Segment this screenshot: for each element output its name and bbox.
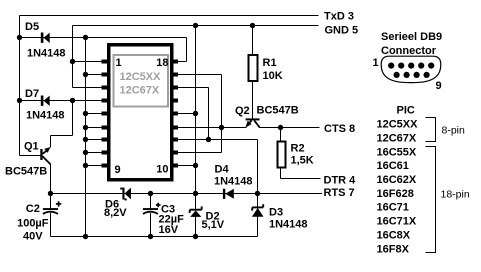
wire R1 top lead xyxy=(252,26,254,55)
DB9 pin dots row 2 xyxy=(394,72,430,78)
wire pin 18 stub lead xyxy=(175,61,187,63)
svg-text:8,2V: 8,2V xyxy=(104,207,127,219)
node GND rail junction xyxy=(193,23,198,28)
node pin6 junction xyxy=(83,125,88,130)
node rail85 bottom junction xyxy=(83,234,88,239)
svg-text:9: 9 xyxy=(115,164,121,176)
node C3 top junction xyxy=(148,191,153,196)
U1 pin stubs right xyxy=(173,60,178,168)
wire Q1 collector vertical xyxy=(50,136,52,148)
svg-text:1,5K: 1,5K xyxy=(291,155,314,167)
capacitor C2 xyxy=(43,201,61,214)
resistor R1 xyxy=(249,55,258,81)
wire corner down to pin 18 xyxy=(186,38,188,62)
wire DTR line xyxy=(281,178,321,180)
svg-text:1N4148: 1N4148 xyxy=(269,218,308,230)
node Q1 emitter junction xyxy=(48,191,53,196)
svg-text:1: 1 xyxy=(373,57,379,69)
svg-text:PIC: PIC xyxy=(397,104,415,116)
svg-text:C2: C2 xyxy=(26,203,40,215)
wire D5 row to pin 18 xyxy=(20,37,187,39)
zener diode D6 xyxy=(120,188,131,201)
svg-text:1N4148: 1N4148 xyxy=(27,47,66,59)
wire Q1 emitter vertical xyxy=(50,164,52,194)
transistor Q1 xyxy=(40,147,50,164)
node pin14 junction xyxy=(193,111,198,116)
wire pin 10 lead xyxy=(175,165,196,167)
wire pin 17 lead xyxy=(175,74,222,76)
node R1 top junction xyxy=(250,23,255,28)
wire D3 column xyxy=(257,194,259,237)
bracket 18-pin xyxy=(426,147,436,253)
node D7 pin4 junction xyxy=(70,98,75,103)
U1 inner gray box xyxy=(114,55,169,107)
svg-text:16F628: 16F628 xyxy=(377,188,414,200)
svg-text:16V: 16V xyxy=(159,224,179,236)
wire pin 9 lead xyxy=(86,165,109,167)
svg-text:12C67X: 12C67X xyxy=(120,85,160,97)
wire GND rail x195 xyxy=(195,26,197,210)
wire D7 row to pin 4 xyxy=(20,100,109,102)
svg-text:16C61: 16C61 xyxy=(377,160,409,172)
wire vertical pin17-pin11 xyxy=(221,75,223,153)
transistor Q2 xyxy=(245,118,259,127)
wire pin 3 lead xyxy=(73,87,109,89)
svg-text:16C71X: 16C71X xyxy=(377,216,417,228)
svg-text:D5: D5 xyxy=(25,21,39,33)
svg-text:Q2: Q2 xyxy=(235,105,250,117)
node pin13 junction xyxy=(219,125,224,130)
node pin9 junction xyxy=(83,163,88,168)
wire pin 2 lead xyxy=(86,74,109,76)
wire pin 13 lead to Q2 emitter xyxy=(175,127,247,129)
diode D5 xyxy=(41,33,50,44)
svg-text:DTR 4: DTR 4 xyxy=(324,174,357,186)
svg-text:12C5XX: 12C5XX xyxy=(120,71,162,83)
svg-text:D3: D3 xyxy=(269,206,283,218)
wire left rail xyxy=(19,16,21,156)
svg-text:18: 18 xyxy=(156,57,168,69)
node pin2 junction xyxy=(83,72,88,77)
svg-text:1N4148: 1N4148 xyxy=(26,110,65,122)
wire pin 12 lead xyxy=(175,139,258,141)
svg-text:40V: 40V xyxy=(23,231,43,243)
wire pin 7 lead xyxy=(86,139,109,141)
wire R2 bottom lead xyxy=(280,169,282,179)
svg-text:16C71: 16C71 xyxy=(377,202,409,214)
svg-text:RTS 7: RTS 7 xyxy=(324,187,355,199)
DB9 pin dots row 1 xyxy=(388,63,434,69)
wire D2 bottom lead xyxy=(195,217,197,237)
U1 pin stubs left xyxy=(102,60,108,168)
svg-text:CTS 8: CTS 8 xyxy=(324,123,355,135)
svg-text:GND 5: GND 5 xyxy=(325,24,359,36)
svg-text:16F8X: 16F8X xyxy=(377,243,410,255)
wire pin 1 lead xyxy=(73,61,109,63)
wire pin 6 lead xyxy=(86,127,109,129)
node pin1 junction xyxy=(70,59,75,64)
wire C2 bottom lead xyxy=(50,213,52,237)
node D3 top junction xyxy=(255,191,260,196)
op-amp U1 PIC socket body xyxy=(109,45,172,180)
node pin8 junction xyxy=(83,150,88,155)
svg-text:D4: D4 xyxy=(215,164,230,176)
svg-text:1: 1 xyxy=(116,57,122,69)
wire Q1 collector horizontal xyxy=(51,135,73,137)
wire pin 14 lead xyxy=(175,113,196,115)
svg-text:16C8X: 16C8X xyxy=(377,229,411,241)
wire pin12 drop to RTS node xyxy=(257,140,259,194)
svg-text:16C62X: 16C62X xyxy=(377,174,417,186)
wire pin 16 lead xyxy=(175,87,209,89)
wire GND net line xyxy=(73,25,319,27)
node D5 left junction xyxy=(17,35,22,40)
svg-text:BC547B: BC547B xyxy=(257,104,299,116)
wire C3 bottom lead xyxy=(150,213,152,237)
wire pin 5 lead xyxy=(86,113,109,115)
wire GND drop to pins 1 and 3 xyxy=(72,26,74,88)
svg-text:12C5XX: 12C5XX xyxy=(377,119,419,131)
node pin5 junction xyxy=(83,111,88,116)
node pin12 junction xyxy=(206,137,211,142)
svg-text:Connector: Connector xyxy=(381,45,437,57)
capacitor C3 xyxy=(143,203,161,214)
resistor R2 xyxy=(278,142,286,168)
svg-text:R2: R2 xyxy=(291,143,305,155)
svg-text:1N4148: 1N4148 xyxy=(214,175,253,187)
bracket 8-pin xyxy=(426,118,436,142)
wire C3 top lead xyxy=(150,194,152,209)
wire pin4 node down to Q1 collector xyxy=(72,101,74,136)
svg-text:D7: D7 xyxy=(25,88,39,100)
svg-text:10: 10 xyxy=(156,163,168,175)
wire pin 8 lead xyxy=(86,152,109,154)
wire C2 top lead xyxy=(50,194,52,209)
svg-text:18-pin: 18-pin xyxy=(441,188,470,200)
svg-text:8-pin: 8-pin xyxy=(442,124,466,136)
node pin10 junction xyxy=(193,163,198,168)
wire CTS line xyxy=(260,127,320,129)
wire bottom rail xyxy=(51,236,258,238)
svg-text:9: 9 xyxy=(436,80,442,92)
wire vertical pin16-pin12 xyxy=(208,88,210,140)
wire vertical rail x85 xyxy=(85,38,87,237)
svg-text:12C67X: 12C67X xyxy=(377,133,417,145)
wire RTS mid line xyxy=(51,193,323,195)
wire R2 top lead xyxy=(280,128,282,141)
svg-text:TxD 3: TxD 3 xyxy=(324,10,354,22)
svg-text:10K: 10K xyxy=(263,70,283,82)
node pin7 junction xyxy=(83,137,88,142)
svg-text:5,1V: 5,1V xyxy=(202,219,225,231)
svg-text:Q1: Q1 xyxy=(24,140,39,152)
svg-text:100µF: 100µF xyxy=(17,217,49,229)
svg-text:16C55X: 16C55X xyxy=(377,146,417,158)
node D7 left junction xyxy=(17,98,22,103)
svg-text:BC547B: BC547B xyxy=(5,166,47,178)
wire pin 11 lead xyxy=(175,152,222,154)
node R2 top junction xyxy=(278,125,283,130)
node D5 right junction xyxy=(83,35,88,40)
diode D7 xyxy=(41,96,50,107)
svg-text:Serieel DB9: Serieel DB9 xyxy=(381,31,442,43)
node D2 bottom junction xyxy=(193,234,198,239)
node C3 bottom junction xyxy=(148,234,153,239)
zener diode D3 xyxy=(252,204,264,217)
svg-text:R1: R1 xyxy=(263,57,277,69)
zener diode D2 xyxy=(190,206,202,217)
wire TxD net top line xyxy=(20,15,319,17)
wire Q1 base xyxy=(20,155,41,157)
diode D4 xyxy=(223,189,234,199)
node D2 top junction xyxy=(193,191,198,196)
DB9 connector outline xyxy=(381,56,441,82)
wire R1 bottom to Q2 base xyxy=(252,82,254,119)
